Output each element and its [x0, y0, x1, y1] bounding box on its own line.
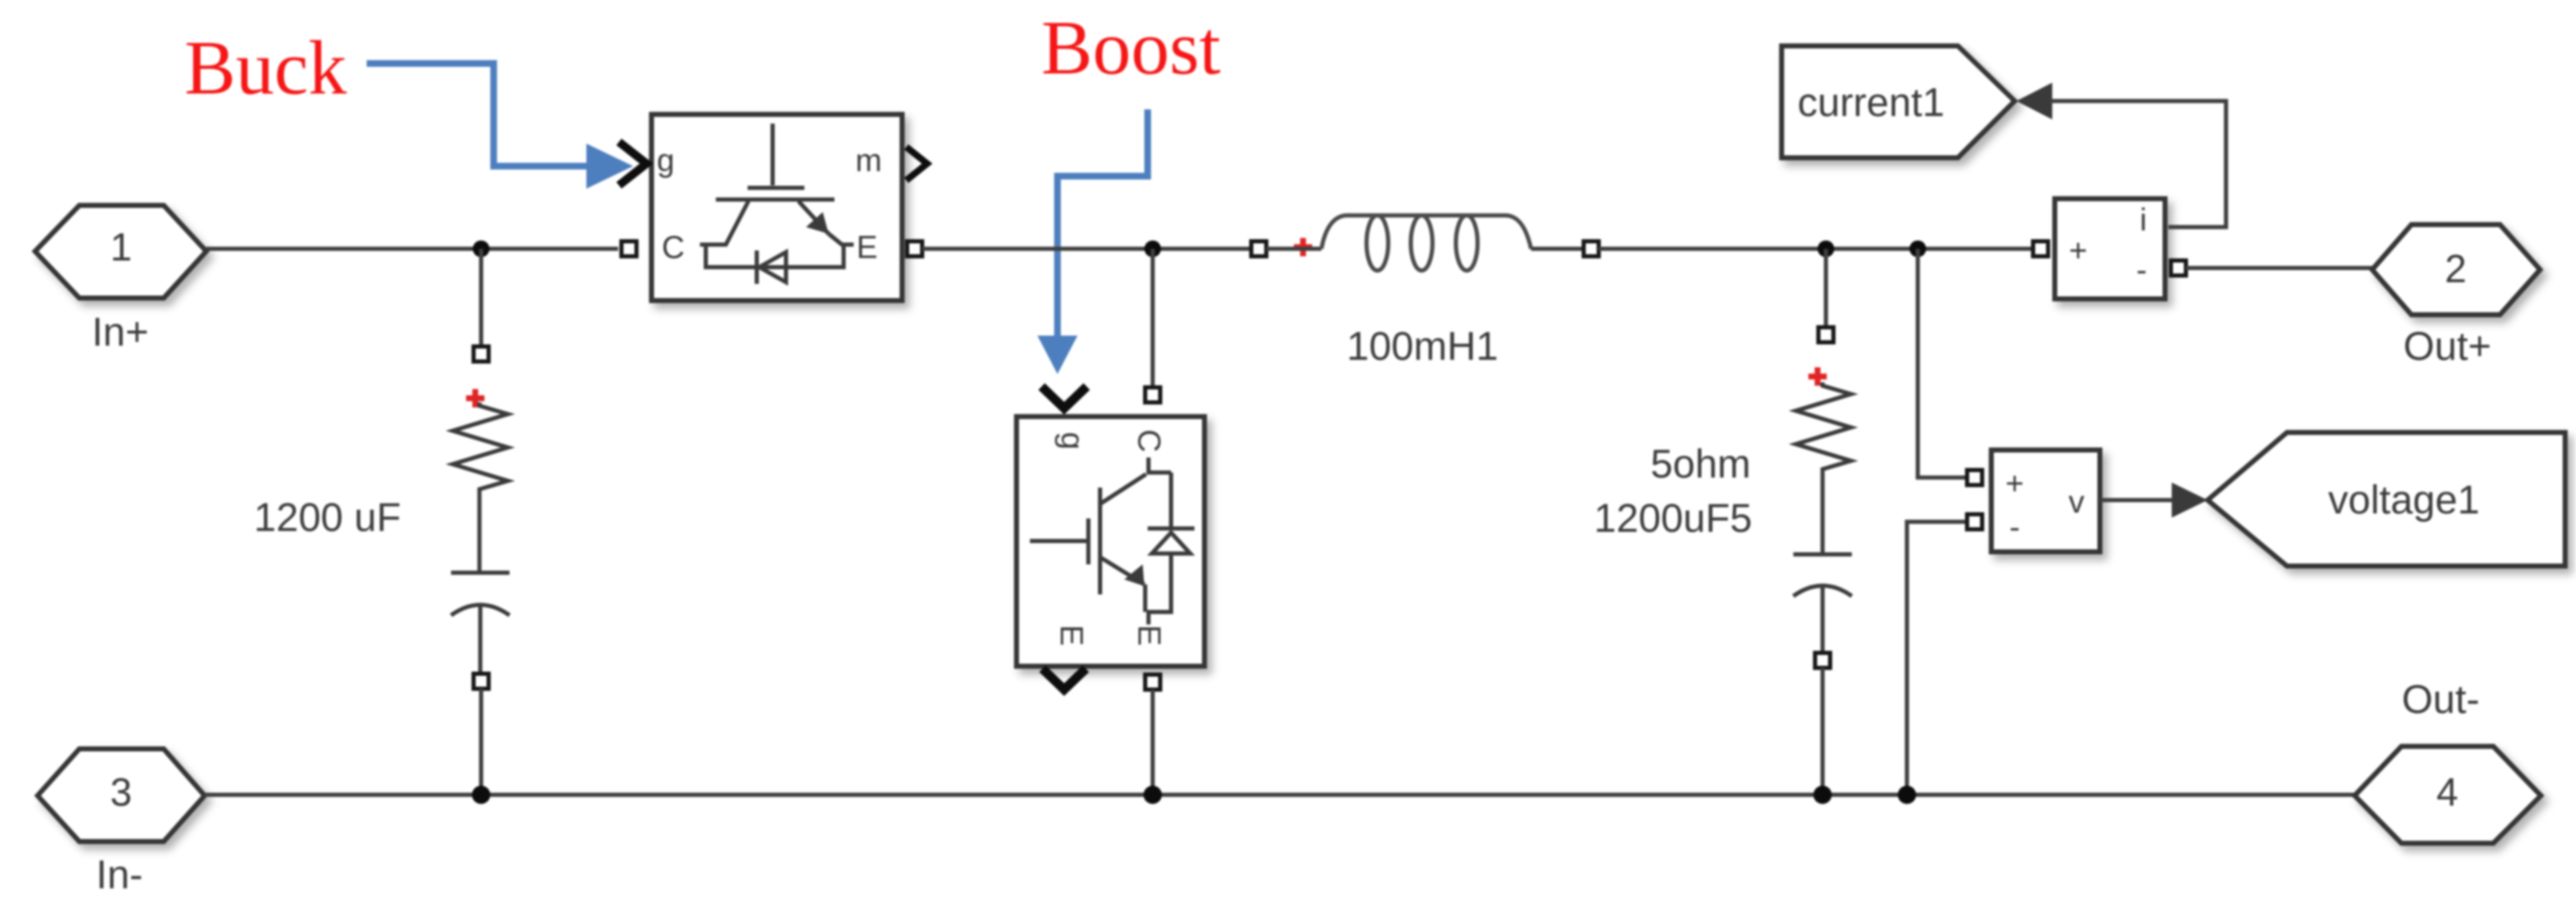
Buck E port square — [907, 241, 922, 256]
svg-text:C: C — [662, 230, 684, 265]
polarity + mark C1 — [466, 389, 484, 407]
svg-text:100mH1: 100mH1 — [1346, 325, 1498, 369]
svg-text:Buck: Buck — [185, 25, 347, 110]
svg-text:In-: In- — [96, 853, 143, 897]
Boost C port square — [1145, 387, 1160, 402]
wire down to capacitor C1 — [479, 249, 484, 346]
signal wire i output to current1 — [2051, 101, 2226, 227]
inductor 100mH1 left port square — [1251, 241, 1266, 256]
svg-text:E: E — [856, 230, 877, 265]
V1 plus port square — [1967, 470, 1982, 485]
svg-text:1200uF5: 1200uF5 — [1594, 497, 1752, 541]
svg-text:2: 2 — [2445, 246, 2467, 291]
svg-text:voltage1: voltage1 — [2328, 478, 2479, 523]
Boost IGBT symbol — [1030, 458, 1171, 612]
node junction Boost E — [1143, 786, 1162, 804]
wire C1 to bottom bus — [479, 689, 484, 795]
svg-text:Out+: Out+ — [2403, 325, 2491, 369]
wire — [1821, 471, 1825, 553]
svg-text:1: 1 — [110, 225, 132, 269]
voltage measurement block V1 — [1991, 450, 2100, 552]
polarity + mark inductor — [1294, 238, 1312, 256]
svg-text:g: g — [657, 144, 674, 179]
node junction boost top — [1144, 240, 1161, 257]
port square C5 bottom — [1815, 653, 1830, 668]
Boost m output chevron — [1042, 669, 1086, 690]
wire port1 to Buck C — [206, 247, 618, 251]
port 3 In- — [38, 749, 205, 842]
polarity + mark C5 — [1808, 367, 1827, 386]
node junction voltage sense — [1909, 240, 1926, 257]
svg-text:In+: In+ — [92, 311, 149, 355]
inductor right port square — [1584, 241, 1599, 256]
annotation arrow to Boost IGBT gate — [1037, 109, 1148, 374]
Boost g input chevron — [1042, 387, 1087, 408]
IGBT block Buck — [652, 114, 902, 301]
svg-text:+: + — [2006, 467, 2024, 502]
Buck C port square — [621, 241, 636, 256]
Buck IGBT symbol — [700, 124, 854, 245]
svg-text:m: m — [855, 144, 882, 179]
svg-text:1200 uF: 1200 uF — [254, 496, 401, 540]
I1 output port square — [2171, 260, 2186, 276]
annotation arrow to Buck IGBT gate — [367, 63, 633, 189]
Buck m output chevron — [906, 147, 927, 180]
svg-text:g: g — [1054, 432, 1089, 449]
capacitor C5 plates — [1793, 554, 1852, 652]
port square C5 top — [1818, 327, 1833, 342]
inductor 100mH1 coil — [1321, 215, 1531, 270]
signal arrowhead into voltage1 — [2172, 483, 2208, 518]
wire inductor to current sensor — [1599, 247, 2031, 251]
svg-text:C: C — [1131, 429, 1166, 452]
svg-text:3: 3 — [110, 770, 132, 814]
wire — [478, 491, 482, 571]
svg-text:5ohm: 5ohm — [1651, 442, 1751, 487]
wire Boost E to bottom bus — [1151, 690, 1155, 795]
svg-text:Boost: Boost — [1042, 5, 1221, 90]
port square C1 top — [474, 346, 489, 361]
Buck antiparallel diode — [706, 245, 844, 284]
Boost E port square — [1145, 675, 1160, 690]
port 4 Out- — [2355, 746, 2541, 843]
IGBT block Boost — [1017, 417, 1204, 666]
svg-text:E: E — [1053, 624, 1088, 645]
wire voltage sensor minus to bottom bus — [1907, 522, 1966, 795]
svg-text:-: - — [2010, 510, 2021, 545]
wire junction to voltage sensor plus — [1918, 249, 1966, 478]
wire V1 output to voltage1 tag — [2100, 498, 2175, 503]
svg-text:current1: current1 — [1798, 81, 1945, 125]
wire down to Boost C — [1151, 249, 1155, 387]
node junction right RC — [1818, 240, 1834, 257]
wire I1 output to port2 — [2186, 266, 2372, 270]
node junction top-left — [473, 240, 489, 257]
node junction voltage minus — [1898, 786, 1916, 804]
port 1 In+ — [35, 205, 206, 298]
wire C5 to bottom bus — [1821, 668, 1825, 795]
svg-text:+: + — [2069, 234, 2087, 269]
port square C1 bottom — [474, 674, 489, 689]
capacitor C1 plates — [451, 573, 510, 673]
svg-text:E: E — [1131, 624, 1166, 645]
node junction C1 bottom — [472, 786, 490, 804]
Boost antiparallel diode — [1148, 473, 1194, 624]
svg-text:i: i — [2140, 203, 2147, 238]
goto tag current1 — [1782, 46, 2015, 158]
svg-text:v: v — [2069, 485, 2085, 520]
current measurement block I1 — [2055, 199, 2165, 299]
wire — [1266, 247, 1321, 251]
signal arrowhead into current1 — [2016, 83, 2052, 119]
svg-text:4: 4 — [2437, 770, 2458, 814]
Buck g input chevron — [619, 142, 647, 185]
V1 minus port square — [1967, 514, 1982, 529]
svg-text:-: - — [2137, 253, 2148, 288]
from tag voltage1 — [2208, 432, 2565, 566]
wire — [1531, 247, 1585, 251]
resistor 5ohm — [1796, 382, 1851, 471]
I1 input port square — [2033, 241, 2048, 256]
resistor of C1 branch — [453, 402, 508, 491]
node junction C5 bottom — [1813, 786, 1832, 804]
port 2 Out+ — [2372, 225, 2540, 315]
bottom bus wire — [205, 793, 2355, 797]
wire Buck E to inductor — [922, 247, 1252, 251]
svg-text:Out-: Out- — [2401, 678, 2479, 722]
wire down to C5 branch — [1824, 249, 1828, 326]
